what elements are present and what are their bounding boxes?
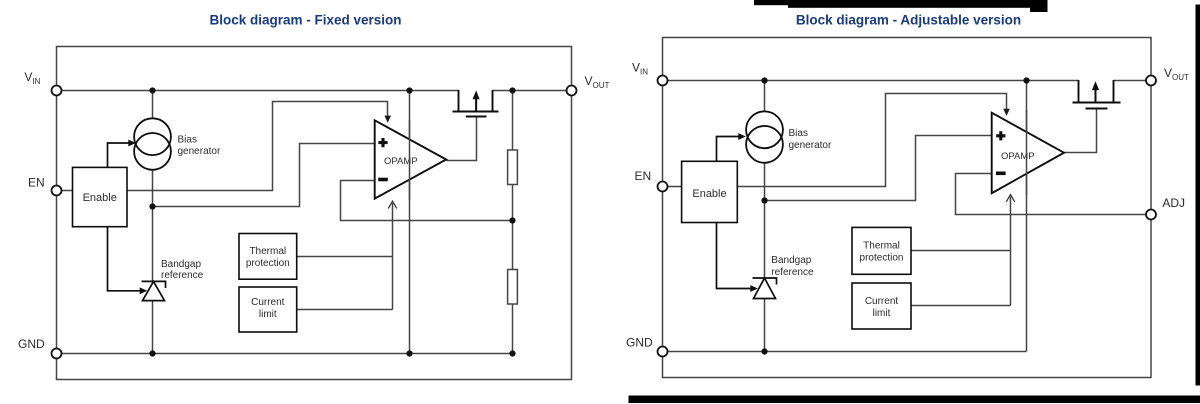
- wire: bandgap reference to GND rail: [764, 298, 766, 351]
- wire: GND rail: [57, 353, 513, 355]
- node: VIN-bias junction: [761, 77, 767, 83]
- bias generator (current source circles): [134, 118, 171, 170]
- transistor Q1 (pass PMOS): [453, 90, 499, 117]
- current limit block: [852, 283, 911, 329]
- svg-text:Bandgap: Bandgap: [161, 259, 201, 270]
- wire: bandgap reference to GND rail: [152, 301, 154, 354]
- transistor source vertical: [1078, 80, 1080, 103]
- wire: VIN rail right segment to VOUT: [493, 90, 572, 92]
- op-amp U1 (error amplifier): [992, 113, 1064, 194]
- wire: enable to bandgap reference (arrow): [108, 227, 141, 291]
- wire: OPAMP output to pass transistor gate: [446, 117, 476, 161]
- pin VIN: [658, 76, 668, 86]
- svg-text:EN: EN: [28, 176, 45, 190]
- op-amp inverting input marker (-): [378, 178, 388, 182]
- wire: EN pin to Enable block: [663, 186, 682, 188]
- wire: current limit output: [911, 305, 1011, 307]
- svg-text:limit: limit: [259, 309, 277, 320]
- wire: reference node to OPAMP non-inverting input: [765, 136, 992, 201]
- node: VIN-supply junction: [1023, 77, 1029, 83]
- wire: bias generator top stub from VIN rail: [764, 81, 766, 112]
- arrow: enable signal into OPAMP top: [1003, 109, 1010, 116]
- svg-text:Current: Current: [251, 297, 285, 308]
- svg-text:Thermal: Thermal: [249, 246, 286, 257]
- page artifact: right black strip: [1196, 5, 1200, 386]
- transistor gate bar: [1086, 108, 1108, 110]
- enable block: [682, 161, 738, 222]
- node: reference node junction: [761, 197, 767, 203]
- wire: thermal protection output: [911, 250, 1011, 252]
- transistor channel line: [1073, 102, 1121, 104]
- wire: enable to bias generator (arrow): [108, 143, 130, 167]
- node: VOUT-divider junction: [509, 87, 515, 93]
- junction dots: [149, 87, 515, 356]
- svg-text:Bandgap: Bandgap: [771, 255, 811, 266]
- pin VOUT: [1146, 76, 1156, 86]
- svg-text:OPAMP: OPAMP: [1001, 151, 1035, 162]
- wire: internal supply vertical overlay across op-amp: [1026, 110, 1028, 195]
- pin VIN: [52, 86, 62, 96]
- transistor source vertical: [458, 90, 460, 112]
- wire: EN pin to Enable block: [57, 190, 73, 192]
- op-amp non-inverting input marker (+): [378, 138, 387, 147]
- pin ADJ: [1146, 210, 1156, 220]
- svg-text:Block diagram - Adjustable ver: Block diagram - Adjustable version: [796, 13, 1021, 28]
- node: feedback tap junction: [509, 217, 515, 223]
- wire: VIN rail left segment: [663, 80, 1079, 82]
- transistor arrow shaft: [1095, 88, 1097, 103]
- wire: Enable output to OPAMP enable (up and over): [737, 94, 1006, 187]
- page artifact: top black bar left part: [754, 0, 790, 5]
- pin EN: [52, 186, 62, 196]
- svg-text:Current: Current: [865, 296, 899, 307]
- wire: GND rail: [663, 351, 1027, 353]
- pin GND: [52, 349, 62, 359]
- arrow: enable signal into OPAMP top: [384, 116, 391, 123]
- bias generator (current source circles): [746, 111, 783, 162]
- resistor R2 (lower divider): [508, 270, 518, 305]
- op-amp U1 (error amplifier): [375, 120, 447, 198]
- svg-text:generator: generator: [178, 146, 221, 157]
- wire: VIN rail left segment: [57, 90, 459, 92]
- wire: protection signals riser into OPAMP: [392, 203, 394, 310]
- svg-text:Thermal: Thermal: [863, 240, 900, 251]
- resistor R1 (upper divider): [508, 150, 518, 185]
- pin VOUT: [567, 86, 577, 96]
- wire: current limit output: [297, 309, 393, 311]
- transistor arrow head: [473, 91, 480, 100]
- pin EN: [658, 182, 668, 192]
- svg-text:Enable: Enable: [692, 188, 726, 200]
- wire: protection signals riser into OPAMP: [1010, 197, 1012, 306]
- wire: VOUT to divider top resistor: [512, 91, 514, 151]
- node: GND-bandgap junction: [761, 348, 767, 354]
- wire: internal supply vertical (VIN rail to GND rail): [409, 91, 411, 354]
- wire: bias generator top stub from VIN rail: [152, 91, 154, 119]
- node: GND-supply junction: [406, 350, 412, 356]
- node: GND-bandgap junction: [149, 350, 155, 356]
- svg-text:Block diagram - Fixed version: Block diagram - Fixed version: [209, 13, 401, 28]
- node: VIN-bias junction: [149, 87, 155, 93]
- svg-text:EN: EN: [635, 169, 652, 183]
- wire: bias generator output down to reference node: [152, 170, 154, 281]
- svg-text:Bias: Bias: [789, 128, 808, 139]
- svg-text:GND: GND: [18, 337, 45, 351]
- page artifact: bottom black bar: [629, 396, 1200, 404]
- wire: enable to bias generator (arrow): [717, 137, 740, 162]
- wire: internal supply vertical (VIN rail to GND rail): [1026, 81, 1028, 352]
- wire: thermal protection output: [297, 256, 393, 258]
- bandgap reference (zener diode): [753, 278, 777, 299]
- IC boundary box: [57, 47, 572, 380]
- arrow: protection signals into OPAMP bottom (open head): [1006, 195, 1014, 202]
- IC boundary box: [663, 38, 1152, 378]
- svg-text:GND: GND: [626, 336, 653, 350]
- wire: bias generator output down to reference node: [764, 163, 766, 278]
- thermal protection block: [239, 234, 297, 280]
- page artifact: top black bar main part: [788, 0, 1031, 8]
- op-amp non-inverting input marker (+): [996, 131, 1005, 140]
- page artifact: top black bar right block: [1030, 0, 1048, 12]
- transistor arrow shaft: [475, 97, 477, 112]
- wire: Enable output to OPAMP enable (up and over): [127, 102, 388, 191]
- pin GND: [658, 347, 668, 357]
- enable block: [73, 167, 128, 226]
- junction dots: [761, 77, 1029, 354]
- svg-text:reference: reference: [161, 270, 204, 281]
- node: GND-divider junction: [509, 350, 515, 356]
- current limit block: [239, 287, 297, 332]
- wire: divider bottom resistor to GND rail: [512, 304, 514, 354]
- svg-text:Enable: Enable: [83, 192, 117, 204]
- bandgap reference (zener diode): [142, 281, 166, 300]
- transistor gate bar: [466, 116, 487, 118]
- svg-text:reference: reference: [771, 267, 814, 278]
- wire: enable to bandgap reference (arrow): [717, 223, 752, 289]
- svg-text:ADJ: ADJ: [1162, 196, 1185, 210]
- wire: reference node to OPAMP non-inverting input: [153, 144, 375, 207]
- wire: VIN rail right segment to VOUT: [1114, 80, 1152, 82]
- thermal protection block: [852, 227, 911, 274]
- svg-text:generator: generator: [789, 140, 832, 151]
- transistor arrow head: [1092, 81, 1099, 90]
- node: reference node junction: [149, 203, 155, 209]
- wire: OPAMP output to pass transistor gate: [1064, 109, 1097, 153]
- wire: divider middle segment R1 to tap: [512, 185, 514, 270]
- node: VIN-supply junction: [406, 87, 412, 93]
- svg-text:OPAMP: OPAMP: [384, 156, 418, 167]
- transistor drain vertical: [492, 90, 494, 112]
- svg-text:Bias: Bias: [178, 134, 197, 145]
- wire: feedback tap to OPAMP inverting input: [341, 181, 513, 221]
- wire: ADJ pin to OPAMP inverting input: [956, 174, 1152, 215]
- svg-text:limit: limit: [873, 308, 891, 319]
- transistor Q1 (pass PMOS): [1073, 80, 1121, 109]
- svg-text:protection: protection: [860, 252, 904, 263]
- transistor drain vertical: [1113, 80, 1115, 103]
- svg-text:protection: protection: [246, 258, 290, 269]
- arrow: protection signals into OPAMP bottom (open head): [388, 201, 396, 208]
- wire: internal supply vertical overlay across op-amp: [409, 120, 411, 200]
- transistor channel line: [453, 111, 499, 113]
- op-amp inverting input marker (-): [996, 172, 1006, 176]
